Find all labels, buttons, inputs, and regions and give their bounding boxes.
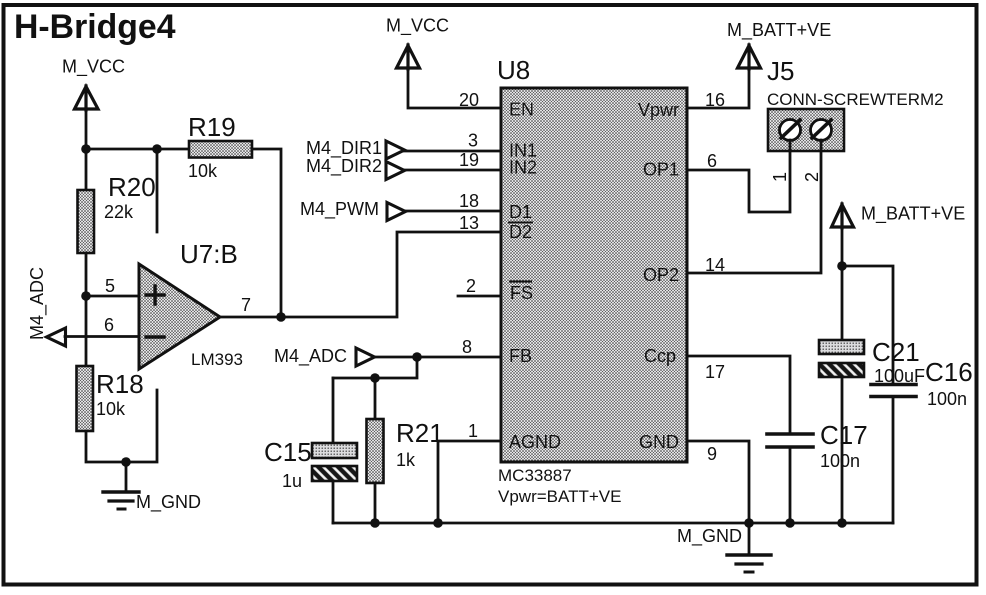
wire node A to R19	[86, 148, 189, 151]
resistor R18	[77, 366, 144, 431]
svg-text:7: 7	[241, 295, 251, 315]
node J (junction battery rail)	[837, 261, 847, 271]
svg-text:FS: FS	[510, 283, 533, 303]
wire ground bus M_GND	[333, 522, 893, 525]
svg-text:1: 1	[468, 421, 478, 441]
wire M4_DIR2 to IN2 pin 19	[404, 169, 501, 172]
wire OP1 pin 6 to J5 pin 1	[687, 140, 790, 212]
svg-text:C16: C16	[925, 357, 973, 387]
svg-text:19: 19	[459, 150, 479, 170]
svg-text:U8: U8	[497, 55, 530, 85]
svg-text:M_BATT+VE: M_BATT+VE	[727, 20, 831, 41]
svg-text:14: 14	[705, 255, 725, 275]
capacitor C17	[767, 420, 868, 471]
svg-text:22k: 22k	[104, 202, 134, 222]
wire R19 right to vertical drop	[252, 149, 281, 317]
wire flag to node J	[841, 228, 844, 266]
wire R20 to node B	[85, 253, 88, 296]
svg-text:6: 6	[707, 151, 717, 171]
svg-text:Vpwr=BATT+VE: Vpwr=BATT+VE	[498, 487, 621, 506]
svg-text:18: 18	[459, 191, 479, 211]
node G (junction R21 top)	[370, 373, 380, 383]
svg-text:M_VCC: M_VCC	[62, 57, 125, 78]
svg-text:M_VCC: M_VCC	[386, 16, 449, 37]
svg-text:M_BATT+VE: M_BATT+VE	[861, 204, 965, 225]
input port arrow M4_DIR1	[386, 141, 405, 159]
svg-text:17: 17	[705, 362, 725, 382]
svg-text:10k: 10k	[188, 161, 218, 181]
svg-text:M_GND: M_GND	[136, 492, 201, 513]
svg-text:2: 2	[466, 276, 476, 296]
svg-text:FB: FB	[509, 346, 532, 366]
input port arrow M4_ADC (left)	[47, 328, 66, 346]
IC U8 MC33887	[497, 55, 687, 462]
op-amp U7:B	[139, 239, 243, 369]
wire R18 bottom to ground run	[86, 390, 157, 462]
wire C17 bottom to bus	[789, 447, 792, 523]
svg-text:MC33887: MC33887	[498, 466, 572, 485]
svg-text:2: 2	[802, 172, 822, 182]
input port arrow M4_ADC (centre)	[356, 348, 375, 366]
svg-text:100n: 100n	[820, 451, 860, 471]
svg-text:U7:B: U7:B	[180, 239, 238, 269]
node E (junction op-amp output / R19 feedback)	[276, 312, 286, 322]
ground symbol M_GND (left)	[103, 462, 139, 509]
wire node J to C16	[842, 266, 893, 384]
wire C16 bottom to bus corner	[892, 397, 895, 524]
node A (junction M_VCC/R20/R19)	[81, 144, 91, 154]
svg-text:5: 5	[105, 276, 115, 296]
svg-text:D2: D2	[509, 222, 532, 242]
node D (junction on R19 wire)	[152, 144, 162, 154]
wire M4_PWM to D1 pin 18	[406, 210, 501, 213]
wire Vpwr pin 16 to M_BATT+VE flag	[687, 69, 749, 108]
wire node A down to R20	[85, 149, 88, 190]
capacitor C16	[871, 357, 973, 409]
node F (junction FB wire)	[412, 352, 422, 362]
input port arrow M4_DIR2	[386, 162, 405, 180]
wire node J down to C21	[841, 266, 844, 340]
svg-text:M_GND: M_GND	[677, 526, 742, 547]
node H (junction R21/bus)	[370, 518, 380, 528]
svg-text:Vpwr: Vpwr	[638, 100, 679, 120]
svg-text:M4_DIR2: M4_DIR2	[306, 156, 382, 177]
power flag M_BATT+VE (top)	[738, 45, 761, 69]
node K (junction C21/bus)	[837, 518, 847, 528]
svg-text:R19: R19	[188, 112, 236, 142]
wire R21 bottom to bus	[374, 483, 377, 523]
wire M4_ADC to FB pin 8	[374, 356, 501, 359]
wire node F down to C15/R21 run	[333, 357, 417, 378]
svg-text:3: 3	[468, 131, 478, 151]
svg-text:M4_ADC: M4_ADC	[27, 267, 48, 340]
wire op-amp output pin 7	[220, 316, 281, 319]
svg-text:GND: GND	[639, 432, 679, 452]
svg-text:EN: EN	[509, 100, 534, 120]
resistor R19	[188, 112, 252, 181]
wire pin 5 to op-amp	[86, 295, 139, 298]
wire OP2 pin 14 to J5 pin 2	[687, 140, 821, 273]
svg-text:6: 6	[104, 315, 114, 335]
input port arrow M4_PWM	[387, 203, 406, 221]
svg-text:9: 9	[707, 444, 717, 464]
wire M4_ADC arrow to op-amp pin 6	[65, 335, 139, 338]
svg-text:C15: C15	[264, 437, 312, 467]
capacitor C15	[264, 437, 357, 491]
svg-text:CONN-SCREWTERM2: CONN-SCREWTERM2	[767, 90, 944, 109]
node M (junction GND9/bus)	[744, 518, 754, 528]
wire M_VCC to U8 EN pin 20	[408, 69, 501, 108]
svg-text:1u: 1u	[282, 471, 302, 491]
svg-text:IN2: IN2	[509, 158, 537, 178]
wire down to C15	[332, 378, 335, 443]
svg-text:AGND: AGND	[509, 432, 561, 452]
node I (junction AGND/bus)	[433, 518, 443, 528]
svg-text:1: 1	[770, 172, 790, 182]
svg-text:C17: C17	[820, 420, 868, 450]
power flag M_VCC (left)	[75, 86, 99, 110]
svg-text:13: 13	[459, 213, 479, 233]
svg-text:LM393: LM393	[191, 350, 243, 369]
wire stub FS pin 2	[458, 295, 501, 298]
wire C21 bottom to bus	[841, 377, 844, 523]
ground symbol M_GND (bottom right)	[727, 523, 771, 572]
connector J5	[767, 56, 944, 151]
svg-text:M4_PWM: M4_PWM	[300, 199, 379, 220]
svg-text:M4_ADC: M4_ADC	[274, 346, 347, 367]
svg-text:OP1: OP1	[643, 160, 679, 180]
power flag M_VCC (top centre)	[397, 45, 420, 69]
svg-text:8: 8	[462, 337, 472, 357]
svg-text:D1: D1	[509, 202, 532, 222]
svg-text:Ccp: Ccp	[644, 346, 676, 366]
node L (junction C17/bus)	[785, 518, 795, 528]
svg-text:100n: 100n	[927, 389, 967, 409]
resistor R21	[367, 418, 444, 483]
svg-text:C21: C21	[872, 337, 920, 367]
svg-text:R21: R21	[396, 418, 444, 448]
wire node G to R21	[374, 378, 377, 419]
svg-text:16: 16	[705, 90, 725, 110]
wire output to U8 D2	[281, 232, 501, 317]
wire GND pin 9 to bus	[687, 441, 749, 523]
wire node B down to R18	[85, 296, 88, 366]
wire stub from node D down (op-amp V+)	[156, 149, 159, 232]
node B (junction divider / op-amp pin 5)	[81, 291, 91, 301]
node C (junction ground)	[121, 457, 131, 467]
wire AGND pin 1 to bus	[438, 441, 501, 523]
resistor R20	[78, 172, 156, 253]
svg-text:R20: R20	[108, 172, 156, 202]
svg-text:H-Bridge4: H-Bridge4	[14, 8, 176, 46]
wire M_VCC flag to node A	[85, 110, 88, 149]
wire C15 bottom to bus	[332, 481, 335, 523]
capacitor C21	[819, 337, 925, 386]
svg-text:OP2: OP2	[643, 265, 679, 285]
svg-text:1k: 1k	[396, 450, 416, 470]
power flag M_BATT+VE (mid right)	[832, 204, 854, 228]
svg-text:20: 20	[459, 90, 479, 110]
wire M4_DIR1 to IN1 pin 3	[404, 150, 501, 153]
svg-text:J5: J5	[767, 56, 794, 86]
wire Ccp pin 17 to C17	[687, 356, 790, 434]
svg-text:R18: R18	[96, 369, 144, 399]
svg-text:10k: 10k	[96, 399, 126, 419]
